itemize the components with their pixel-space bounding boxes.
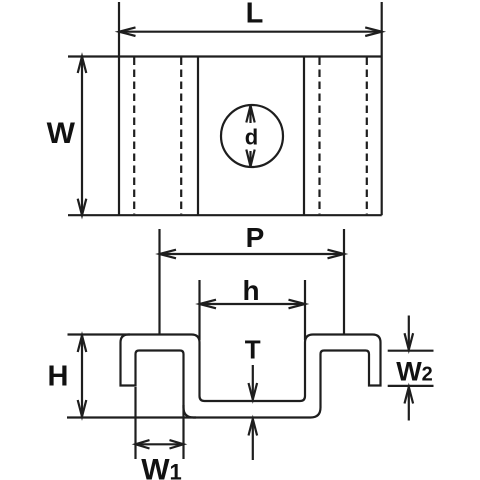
svg-text:d: d	[245, 125, 258, 150]
svg-text:h: h	[242, 275, 259, 306]
svg-text:L: L	[246, 0, 264, 30]
svg-text:H: H	[48, 361, 69, 393]
svg-text:W: W	[47, 117, 76, 150]
svg-text:P: P	[246, 222, 265, 253]
svg-text:T: T	[245, 334, 261, 364]
